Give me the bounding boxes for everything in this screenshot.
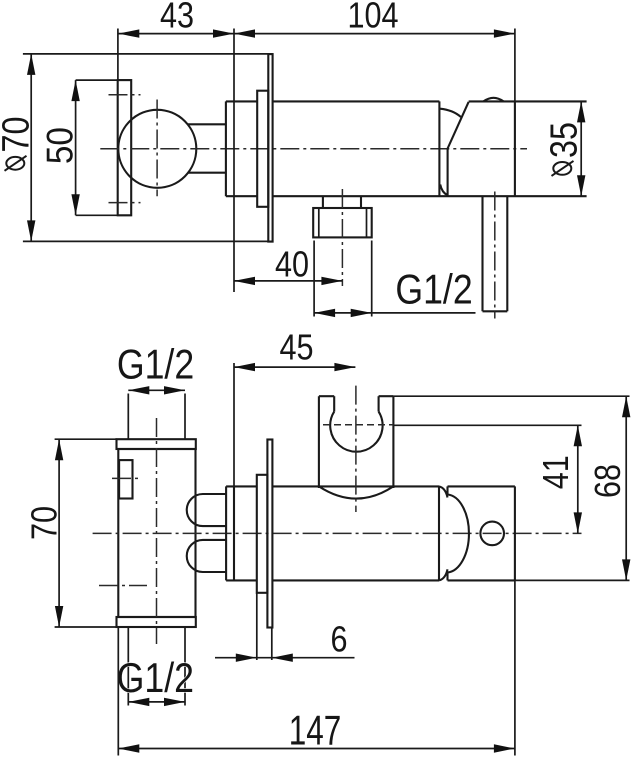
thread root line right xyxy=(366,208,368,237)
handle neck bottom line xyxy=(188,172,226,174)
angled piece left edge xyxy=(447,149,449,197)
prong inner right xyxy=(378,396,380,411)
holder centerline xyxy=(355,386,357,512)
ball vertical centerline xyxy=(156,100,158,197)
dimension 104 line xyxy=(234,33,515,35)
top G1/2 dimension line xyxy=(128,389,185,391)
holder top edge left prong xyxy=(319,395,334,397)
right piece bottom corner arc xyxy=(439,569,448,580)
dome arc inside right piece xyxy=(448,495,469,573)
main horizontal centerline (bottom view) xyxy=(93,532,582,534)
svg-text:68: 68 xyxy=(589,464,629,498)
phi70 dimension line xyxy=(30,54,32,242)
svg-text:45: 45 xyxy=(279,328,313,368)
right end piece left edge top stub xyxy=(446,486,448,494)
fitting centerline xyxy=(341,189,343,286)
svg-text:35: 35 xyxy=(543,122,585,158)
right end piece bottom edge xyxy=(448,579,515,581)
outlet tube centerline xyxy=(494,192,496,319)
body top edge right segment xyxy=(273,100,440,102)
svg-text:G1/2: G1/2 xyxy=(117,655,194,701)
dimension 50 bottom extension xyxy=(76,214,132,216)
dimension 40 line xyxy=(234,280,342,282)
holder hook circle arc xyxy=(330,412,382,452)
dimension 43 extension line (lever) xyxy=(117,29,119,81)
bottom outlet stub left xyxy=(127,627,129,706)
shower holder left edge xyxy=(318,396,320,488)
dimension 43 line xyxy=(118,33,234,35)
holder top edge right prong xyxy=(379,395,394,397)
right end piece top edge xyxy=(448,485,515,487)
right piece top corner arc xyxy=(439,486,448,497)
phi70 top extension line xyxy=(23,53,273,55)
outlet tube left edge xyxy=(481,196,483,311)
45 left extension line xyxy=(233,363,235,486)
handle ball xyxy=(118,110,196,188)
upper connector capsule xyxy=(187,494,226,526)
dimension 50 top extension xyxy=(76,79,132,81)
flange ring (plan) xyxy=(257,475,268,593)
handle neck top line xyxy=(188,123,226,125)
dimension 147 line xyxy=(118,748,515,750)
bottom G1/2 dimension line xyxy=(128,701,185,703)
valve body xyxy=(118,449,195,617)
dimension 70 bottom extension xyxy=(55,626,117,628)
dimension 68 line xyxy=(625,396,627,580)
cylinder bottom edge rear segment xyxy=(226,579,257,581)
main horizontal centerline (top view) xyxy=(100,148,527,150)
outlet tube bottom cap xyxy=(483,310,508,312)
shared extension line x=234 xyxy=(233,29,235,293)
valve body top cap xyxy=(117,439,196,449)
valve body bottom cap xyxy=(117,617,196,627)
holder bottom arc xyxy=(319,486,394,498)
prong inner left xyxy=(333,396,335,411)
outlet tube right edge xyxy=(506,196,508,311)
plate extension for 6 xyxy=(271,628,273,661)
G1/2 fitting neck right xyxy=(360,196,362,208)
body bottom edge with phi35 extension xyxy=(273,195,587,197)
rear cap left edge xyxy=(225,486,227,580)
boss centerline xyxy=(112,477,142,479)
lower boss centerline xyxy=(99,585,147,587)
valve body vertical centerline xyxy=(156,418,158,644)
fillet arc top at body joint xyxy=(440,109,461,117)
angled piece top edge with phi35 extension xyxy=(469,100,587,102)
svg-text:70: 70 xyxy=(25,506,65,540)
side boss rectangle xyxy=(119,460,132,498)
G1/2 thread outline xyxy=(313,208,372,237)
right end piece right edge xyxy=(514,486,516,580)
body right end cap xyxy=(438,101,440,196)
G1/2 fitting neck left xyxy=(322,196,324,208)
phi70 bottom extension line xyxy=(23,240,273,242)
right end extension for 147 xyxy=(514,580,516,755)
svg-text:50: 50 xyxy=(40,127,81,164)
flange extension for 6 xyxy=(256,593,258,660)
svg-text:43: 43 xyxy=(160,0,194,36)
svg-text:6: 6 xyxy=(330,620,347,660)
dimension 70 line xyxy=(58,439,60,627)
lower connector capsule xyxy=(187,540,226,572)
cylinder top edge rear segment xyxy=(226,485,257,487)
svg-text:70: 70 xyxy=(0,117,37,153)
rear cap right edge xyxy=(233,486,235,580)
flange ring (side view) xyxy=(257,91,268,207)
svg-text:G1/2: G1/2 xyxy=(117,342,194,388)
lever bottom center mark xyxy=(109,202,141,204)
body left edge extension for 147 xyxy=(117,627,119,756)
svg-text:G1/2: G1/2 xyxy=(395,267,472,313)
dimension 41 line xyxy=(577,425,579,533)
thread root line left xyxy=(318,208,320,237)
bottom outlet stub right xyxy=(184,627,186,706)
G1/2 thread extension right xyxy=(371,241,373,317)
top inlet stub right xyxy=(184,394,186,440)
svg-text:40: 40 xyxy=(275,245,309,285)
fillet arc bottom at body joint xyxy=(440,185,448,196)
dimension 50 line xyxy=(75,80,77,215)
cylinder bottom edge main segment xyxy=(272,579,439,581)
dimension 70 top extension xyxy=(55,438,117,440)
body rear cap line xyxy=(225,101,227,196)
cylinder top edge main segment xyxy=(272,485,439,487)
right end piece left edge bottom stub xyxy=(446,572,448,580)
top inlet stub left xyxy=(127,394,129,440)
small circle on right piece xyxy=(480,522,504,546)
cylinder bottom extension to 68 xyxy=(515,579,630,581)
hole center extension to 41 xyxy=(393,424,581,426)
G1/2 thread dimension line xyxy=(314,312,475,314)
phi35 dimension line xyxy=(580,101,582,196)
shower holder right edge xyxy=(392,396,394,488)
dimension 45 line xyxy=(234,366,355,368)
angled piece right edge and 104 extension xyxy=(514,29,516,102)
body top edge left segment xyxy=(226,100,257,102)
tube top dome arc xyxy=(484,98,504,102)
dimension 6 line xyxy=(215,657,355,659)
svg-text:104: 104 xyxy=(347,0,398,36)
holder hidden line xyxy=(323,424,393,426)
holder top extension to 68 xyxy=(393,395,629,397)
G1/2 thread extension left xyxy=(313,241,315,317)
angled outlet piece slant edge xyxy=(448,102,469,149)
wall plate (side view) xyxy=(268,54,272,242)
body bottom edge left segment xyxy=(226,195,257,197)
wall plate (plan) xyxy=(267,440,272,628)
svg-text:41: 41 xyxy=(537,455,577,489)
svg-text:147: 147 xyxy=(289,706,342,754)
cylinder right end line xyxy=(438,486,440,580)
handle lever (side view) xyxy=(118,80,132,215)
lever top center mark xyxy=(109,94,141,96)
